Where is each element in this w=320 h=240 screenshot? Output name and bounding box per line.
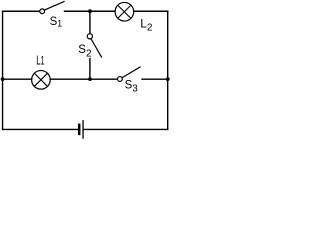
wire S1 to node A [65, 10, 91, 12]
node A junction [88, 9, 92, 13]
wire left side [2, 11, 4, 129]
svg-text:S1: S1 [50, 16, 63, 29]
wire right side [167, 11, 169, 129]
svg-text:L1: L1 [36, 52, 44, 67]
node on left wire to middle branch [1, 77, 5, 81]
wire S2 to node B [89, 59, 91, 80]
wire L1 to node B [50, 78, 90, 80]
lamp L2 [115, 2, 134, 21]
lamp L1 [32, 71, 51, 90]
switch S3 [118, 67, 141, 81]
wire bottom, left of battery [3, 128, 78, 130]
wire node A to lamp L2 [90, 10, 115, 12]
node B junction [88, 77, 92, 81]
wire bottom, right of battery [84, 128, 168, 130]
wire S3 to node C [142, 78, 168, 80]
switch S2 [87, 34, 101, 57]
switch S1 [40, 2, 64, 14]
wire L2 to top-right corner [134, 10, 168, 12]
battery B1 [79, 121, 83, 138]
wire node A down to S2 [89, 11, 91, 33]
wire top, left of S1 [3, 10, 40, 12]
wire middle, node to lamp L1 [3, 78, 32, 80]
wire node B to S3 [90, 78, 117, 80]
node C junction on right wire [166, 77, 170, 81]
